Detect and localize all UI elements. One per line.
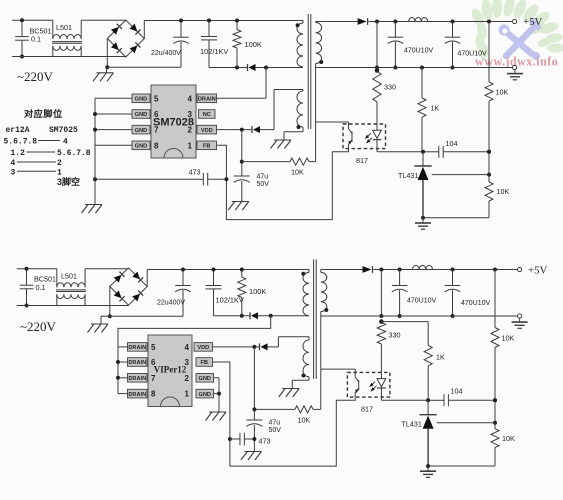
- wire - +5V rail (top circuit): [369, 20, 513, 24]
- terminal 0V output (top circuit): [513, 65, 517, 69]
- label +5V (bottom circuit): [528, 265, 547, 277]
- label 100K (bottom): [249, 287, 266, 296]
- common-mode choke L501 (bottom circuit): [56, 282, 86, 305]
- label SM7028: [153, 117, 194, 129]
- optocoupler 817 LED (bottom circuit): [370, 372, 386, 397]
- optocoupler 817 phototransistor (bottom circuit): [355, 372, 359, 397]
- table row 4 - 2: [11, 159, 63, 168]
- svg-text:DRAIN: DRAIN: [128, 345, 146, 351]
- label BC501: [30, 27, 52, 36]
- wire - clamp diode to drain node (bottom circuit): [258, 314, 309, 318]
- pin labels DRAIN x4 (VIPer12 left): [128, 343, 148, 398]
- svg-text:50V: 50V: [269, 427, 282, 434]
- label 47u 50V (top circuit): [257, 174, 270, 189]
- pin numbers VIPer12: [151, 343, 190, 399]
- svg-text:对应脚位: 对应脚位: [24, 108, 63, 119]
- wire - aux top to VDD diode (bottom circuit): [278, 337, 309, 347]
- wire - bridge DC+ riser to HV rail (bottom circuit): [147, 270, 309, 287]
- label ~220V (bottom circuit): [20, 319, 57, 334]
- label L501 (bottom): [61, 271, 77, 280]
- label er12A: [6, 126, 30, 135]
- wire - rail to 330 node (bottom circuit): [379, 270, 383, 319]
- label 470U10V second (top circuit): [458, 51, 488, 58]
- svg-text:DRAIN: DRAIN: [198, 97, 216, 103]
- label 102/1KV: [200, 47, 228, 56]
- svg-text:330: 330: [384, 83, 396, 92]
- label 473 (top circuit): [189, 168, 201, 177]
- svg-text:4: 4: [63, 138, 68, 147]
- capacitor 473 FB filter (top circuit): [95, 173, 226, 186]
- diode output rectifier (top circuit): [316, 18, 368, 25]
- wire - VDD to 47u node (bottom circuit): [252, 347, 256, 420]
- ground - TL431 earth (bottom circuit): [420, 467, 436, 477]
- label 22u/400V: [151, 50, 181, 57]
- ground - primary return at bridge (top circuit): [93, 67, 114, 81]
- svg-text:0.1: 0.1: [31, 35, 41, 44]
- svg-text:102/1KV: 102/1KV: [200, 47, 228, 56]
- wire - TL431 ref line (bottom circuit): [437, 422, 495, 424]
- table row 5.6.7.8 - 4: [4, 138, 69, 147]
- svg-text:7: 7: [151, 374, 156, 383]
- svg-text:470U10V: 470U10V: [461, 300, 491, 307]
- wire - bridge DC- drop (top circuit): [105, 39, 109, 70]
- svg-text:FB: FB: [201, 360, 208, 366]
- svg-text:1: 1: [185, 390, 190, 399]
- label 对应脚位 pin mapping title: [24, 108, 63, 119]
- ground - TL431 earth (top circuit): [415, 219, 431, 229]
- wire - AC neutral input bottom (top circuit): [12, 56, 126, 58]
- label L501: [56, 23, 72, 32]
- watermark tools logo: [499, 18, 543, 60]
- svg-text:VDD: VDD: [201, 128, 213, 134]
- resistor 10K upper divider (bottom circuit): [491, 270, 499, 401]
- pin label GND (VIPer12 pin1): [196, 389, 214, 398]
- shunt regulator TL431 (bottom circuit): [419, 400, 436, 468]
- capacitor 22u/400V bulk (top circuit): [173, 19, 189, 68]
- svg-text:TL431: TL431: [402, 420, 422, 429]
- svg-text:+5V: +5V: [523, 16, 542, 28]
- svg-text:L501: L501: [61, 271, 77, 280]
- resistor 10K VDD-opto (top circuit): [242, 158, 316, 165]
- svg-text:DRAIN: DRAIN: [128, 360, 146, 366]
- svg-text:VIPer12: VIPer12: [154, 364, 187, 374]
- svg-text:DRAIN: DRAIN: [128, 392, 146, 398]
- svg-text:22u400V: 22u400V: [157, 300, 185, 307]
- wire - VDD diode to aux (top circuit): [260, 129, 274, 131]
- svg-text:5.6.7.8: 5.6.7.8: [4, 138, 38, 147]
- svg-text:104: 104: [446, 139, 458, 148]
- bridge rectifier (bottom circuit): [110, 268, 147, 305]
- diode VDD rectifier (bottom circuit): [260, 343, 268, 350]
- label 10K (bottom, horizontal): [298, 416, 311, 425]
- resistor 10K upper divider (top circuit): [485, 22, 493, 152]
- ground - output earth (bottom circuit): [512, 318, 528, 328]
- diode VDD rectifier (top circuit): [252, 126, 260, 133]
- svg-text:GND: GND: [135, 97, 147, 103]
- label 817 (bottom circuit): [361, 405, 373, 414]
- svg-text:22u/400V: 22u/400V: [151, 50, 181, 57]
- svg-text:10K: 10K: [502, 334, 515, 343]
- bridge rectifier (top circuit): [107, 20, 144, 57]
- resistor 1K TL431 (bottom circuit): [424, 322, 432, 401]
- svg-text:GND: GND: [199, 376, 211, 382]
- wire - snubber bottom line (bottom circuit): [214, 314, 251, 318]
- label +5V (top circuit): [523, 16, 542, 28]
- wire - clamp diode to drain node (top circuit): [256, 66, 304, 70]
- svg-text:3: 3: [185, 358, 190, 367]
- label 10K lower (bottom circuit): [502, 434, 515, 443]
- resistor 10K lower divider (top circuit): [485, 150, 493, 218]
- svg-text:10K: 10K: [502, 434, 515, 443]
- svg-text:4: 4: [185, 343, 190, 352]
- pin label VDD (SM7028 pin2): [197, 125, 217, 134]
- svg-text:DRAIN: DRAIN: [128, 376, 146, 382]
- capacitor BC501 0.1 (bottom circuit): [20, 267, 34, 308]
- svg-text:817: 817: [356, 156, 368, 165]
- svg-text:100K: 100K: [245, 40, 262, 49]
- wire - DRAIN pins to bus (bottom circuit): [118, 347, 128, 394]
- svg-text:10K: 10K: [298, 416, 311, 425]
- wire - VDD diode to aux (bottom circuit): [268, 346, 279, 348]
- svg-text:~220V: ~220V: [20, 319, 57, 334]
- svg-text:TL431: TL431: [398, 171, 418, 180]
- svg-text:GND: GND: [199, 392, 211, 398]
- watermark leaves decoration: [469, 0, 563, 60]
- label ~220V (top circuit): [17, 69, 54, 84]
- wire - DC- rail to bulk cap (bottom circuit): [110, 315, 183, 317]
- wire - drain riser to pin 4 (top circuit): [217, 68, 267, 99]
- shunt regulator TL431 (top circuit): [414, 152, 431, 220]
- svg-text:L501: L501: [56, 23, 72, 32]
- svg-text:VDD: VDD: [197, 345, 209, 351]
- svg-text:6: 6: [154, 110, 159, 119]
- svg-text:GND: GND: [135, 112, 147, 118]
- label 10K upper (top circuit): [496, 88, 509, 97]
- label 473 (bottom circuit): [259, 437, 271, 446]
- diode output rectifier (bottom circuit): [321, 266, 373, 273]
- pin label FB (SM7028 pin1): [197, 141, 217, 150]
- wire - rail to 330 node (top circuit): [375, 22, 379, 70]
- svg-text:FB: FB: [203, 144, 210, 150]
- capacitor 473 FB filter (bottom circuit): [230, 433, 255, 446]
- transformer T1 secondary winding (top circuit): [316, 22, 324, 162]
- ground - 47u cap (bottom circuit): [241, 446, 262, 460]
- wire - secondary to opto collector (bottom circuit): [321, 369, 355, 372]
- svg-text:1K: 1K: [436, 353, 445, 362]
- wire - GND bus from pins 5-8 (top circuit): [93, 98, 132, 199]
- pin label VDD (VIPer12 pin4): [194, 343, 213, 352]
- resistor 330 opto feed (top circuit): [373, 68, 381, 124]
- svg-text:2: 2: [57, 159, 62, 168]
- label TL431 (bottom circuit): [402, 420, 422, 429]
- wire - AC live input top (bottom circuit): [17, 269, 129, 283]
- svg-text:1: 1: [188, 141, 193, 150]
- label 330 (top circuit): [384, 83, 396, 92]
- label 104 (top circuit): [446, 139, 458, 148]
- svg-text:2: 2: [185, 374, 190, 383]
- ground - IC GND pins (bottom circuit): [206, 407, 227, 421]
- svg-text:47u: 47u: [269, 420, 281, 427]
- svg-text:4: 4: [11, 159, 16, 168]
- label 1K (bottom circuit): [436, 353, 445, 362]
- label 102/1KV (bottom): [216, 296, 244, 305]
- wire - 330 node to 1K (bottom circuit): [381, 321, 428, 323]
- capacitor 22u/400V bulk (bottom circuit): [175, 268, 191, 317]
- wire - bridge DC+ riser to HV rail (top circuit): [144, 21, 303, 39]
- capacitor 470U/10V second (top circuit): [445, 22, 461, 70]
- label 104 (bottom circuit): [451, 387, 463, 396]
- resistor 100K snubber (bottom circuit): [238, 268, 246, 316]
- label 470U10V first (bottom circuit): [407, 298, 437, 305]
- wire - FB pin3 routing (bottom circuit): [213, 362, 356, 466]
- pin label NC (SM7028 pin3): [199, 110, 216, 119]
- svg-text:5: 5: [151, 343, 156, 352]
- svg-text:7: 7: [154, 126, 159, 135]
- capacitor BC501 0.1 across AC input (top circuit): [15, 18, 29, 58]
- optocoupler 817 LED (top circuit): [365, 124, 381, 149]
- svg-text:8: 8: [151, 390, 156, 399]
- table row 3 - 1: [11, 169, 63, 178]
- svg-text:330: 330: [389, 331, 401, 340]
- svg-text:GND: GND: [135, 144, 147, 150]
- label 1K (top circuit): [431, 104, 440, 113]
- label 3脚空: [57, 176, 80, 187]
- capacitor 104 compensation (bottom circuit): [426, 394, 497, 406]
- label 10K upper (bottom circuit): [502, 334, 515, 343]
- svg-text:0.1: 0.1: [36, 283, 46, 292]
- wire - drain riser to DRAIN bus (bottom circuit): [116, 316, 271, 394]
- svg-text:4: 4: [188, 94, 193, 103]
- capacitor 47u/50V VDD (bottom circuit): [246, 420, 262, 446]
- capacitor 470U/10V second (bottom circuit): [445, 270, 461, 319]
- label 817 (top circuit): [356, 156, 368, 165]
- svg-text:SM7025: SM7025: [49, 126, 78, 135]
- wire - aux bottom to ground (bottom circuit): [292, 377, 309, 383]
- svg-text:1K: 1K: [431, 104, 440, 113]
- wire - DC- jog to ground (bottom circuit): [101, 316, 110, 318]
- svg-text:3: 3: [188, 110, 193, 119]
- resistor 10K lower divider (bottom circuit): [491, 398, 499, 466]
- wire - bridge DC- drop (bottom circuit): [108, 287, 112, 319]
- transformer T1 core (top circuit): [308, 14, 311, 129]
- label SM7025: [49, 126, 78, 135]
- optocoupler 817 box (bottom circuit): [347, 372, 390, 397]
- wire - TL431 ref line (top circuit): [432, 174, 489, 176]
- resistor 100K snubber (top circuit): [233, 19, 241, 68]
- wire - secondary 0V rail (top circuit): [316, 66, 513, 70]
- pin numbers SM7028: [154, 94, 193, 150]
- svg-text:6: 6: [151, 358, 156, 367]
- label 47u 50V (bottom circuit): [269, 420, 282, 435]
- svg-text:2: 2: [188, 126, 193, 135]
- svg-text:470U10V: 470U10V: [407, 298, 437, 305]
- svg-text:47u: 47u: [257, 174, 269, 181]
- wire - secondary to opto collector (top circuit): [316, 122, 349, 124]
- label 0.1 (bottom): [36, 283, 46, 292]
- label 330 (bottom circuit): [389, 331, 401, 340]
- wire - AC live input top (top circuit): [12, 20, 126, 34]
- svg-text:~220V: ~220V: [17, 69, 54, 84]
- svg-text:473: 473: [189, 168, 201, 177]
- transformer T2 aux winding (bottom circuit): [302, 340, 310, 378]
- wire - AC neutral input (bottom circuit): [17, 305, 129, 307]
- svg-text:817: 817: [361, 405, 373, 414]
- wire - VDD to 47u node (top circuit): [240, 130, 244, 176]
- transformer T1 primary winding (top circuit): [296, 21, 303, 68]
- resistor 10K VDD-opto (bottom circuit): [254, 406, 320, 413]
- inductor output filter (bottom circuit): [413, 265, 433, 269]
- svg-text:3脚空: 3脚空: [57, 176, 80, 187]
- ground - output earth (top circuit): [507, 70, 523, 80]
- label 10K (top, horizontal): [291, 168, 304, 177]
- ground - aux winding (bottom circuit): [279, 383, 300, 397]
- wire - snubber bottom line (top circuit): [209, 66, 248, 70]
- wire - +5V rail (bottom circuit): [374, 268, 518, 272]
- label TL431 (top circuit): [398, 171, 418, 180]
- terminal +5V output (bottom circuit): [518, 267, 522, 271]
- svg-text:5.6.7.8: 5.6.7.8: [57, 149, 91, 158]
- inductor output filter (top circuit): [409, 18, 428, 22]
- svg-text:470U10V: 470U10V: [404, 48, 434, 55]
- label 10K lower (top circuit): [497, 187, 510, 196]
- svg-text:473: 473: [259, 437, 271, 446]
- capacitor 104 compensation (top circuit): [421, 146, 491, 158]
- svg-text:1.2: 1.2: [11, 149, 26, 158]
- label VIPer12: [154, 364, 187, 374]
- svg-text:10K: 10K: [291, 168, 304, 177]
- wire - FB pin1 routing (top circuit): [217, 145, 349, 219]
- common-mode choke L501 (top circuit): [52, 34, 82, 57]
- label 470U10V first (top circuit): [404, 48, 434, 55]
- svg-text:NC: NC: [203, 112, 211, 118]
- transistor U2 VIPer12 controller body: [148, 335, 192, 407]
- terminal +5V output (top circuit): [513, 19, 517, 23]
- label 100K: [245, 40, 262, 49]
- pin label FB (VIPer12 pin3): [196, 358, 213, 367]
- optocoupler 817 box (top circuit): [343, 124, 386, 149]
- ground - 47u cap (top circuit): [228, 196, 249, 210]
- label BC501 (bottom): [34, 275, 56, 284]
- wire - VDD pin2 line (top circuit): [217, 128, 253, 132]
- capacitor 470U/10V first (top circuit): [388, 22, 404, 70]
- resistor 330 opto feed (bottom circuit): [377, 319, 385, 372]
- watermark www.jdwx.info: [475, 55, 558, 69]
- svg-text:10K: 10K: [496, 88, 509, 97]
- table row 1.2 - 5.6.7.8: [11, 149, 91, 158]
- pin label GND (VIPer12 pin2): [196, 374, 214, 383]
- wire - aux bottom to ground (top circuit): [284, 127, 303, 135]
- wire - GND pin2 to pin1 (bottom circuit): [214, 378, 222, 407]
- transformer T2 secondary winding (bottom circuit): [321, 270, 329, 410]
- wire - DC- rail to bulk cap (top circuit): [107, 66, 181, 68]
- label 0.1: [31, 35, 41, 44]
- transformer T2 primary winding (bottom circuit): [301, 270, 309, 316]
- wire - divider bottom to TL431 anode (top circuit): [423, 217, 489, 219]
- svg-text:GND: GND: [135, 128, 147, 134]
- capacitor 102/1KV snubber (top circuit): [201, 19, 217, 68]
- svg-text:470U10V: 470U10V: [458, 51, 488, 58]
- svg-text:100K: 100K: [249, 287, 266, 296]
- ground - IC GND bus (top circuit): [82, 199, 103, 213]
- optocoupler 817 phototransistor (top circuit): [348, 124, 352, 149]
- transformer T2 core (bottom circuit): [314, 260, 317, 380]
- capacitor 470U/10V first (bottom circuit): [392, 270, 408, 319]
- capacitor 102/1KV snubber (bottom circuit): [206, 268, 222, 316]
- wire - opto LED cathode to TL431 (top circuit): [377, 149, 423, 152]
- diode snubber clamp (bottom circuit): [250, 312, 258, 319]
- ground - primary return at bridge (bottom circuit): [88, 319, 109, 333]
- svg-text:er12A: er12A: [6, 126, 30, 135]
- svg-text:8: 8: [154, 141, 159, 150]
- pin label DRAIN (SM7028 pin4): [197, 94, 217, 103]
- svg-text:5: 5: [154, 94, 159, 103]
- terminal 0V output (bottom circuit): [518, 314, 522, 318]
- wire - divider bottom to TL431 anode (bottom circuit): [428, 465, 495, 467]
- transformer T1 aux winding (top circuit): [297, 91, 304, 129]
- capacitor 47u/50V VDD (top circuit): [234, 176, 250, 196]
- ground - aux winding (top circuit): [271, 135, 292, 149]
- diode snubber clamp (top circuit): [248, 64, 256, 71]
- op-amp U1 SM7028 controller body: [151, 85, 196, 158]
- svg-text:10K: 10K: [497, 187, 510, 196]
- label 22u400V (bottom): [157, 300, 185, 307]
- resistor 1K TL431 (top circuit): [418, 68, 426, 152]
- svg-text:104: 104: [451, 387, 463, 396]
- svg-text:50V: 50V: [257, 181, 270, 188]
- pin labels GND x4 (SM7028 left): [132, 94, 150, 150]
- svg-text:+5V: +5V: [528, 265, 547, 277]
- wire - aux top to VDD diode (top circuit): [274, 90, 303, 130]
- wire - VDD pin4 line (bottom circuit): [213, 345, 260, 349]
- label 470U10V second (bottom circuit): [461, 300, 491, 307]
- svg-text:3: 3: [11, 169, 16, 178]
- wire - opto LED cathode to TL431 (bottom circuit): [381, 397, 428, 400]
- wire - secondary 0V rail (bottom circuit): [321, 315, 518, 317]
